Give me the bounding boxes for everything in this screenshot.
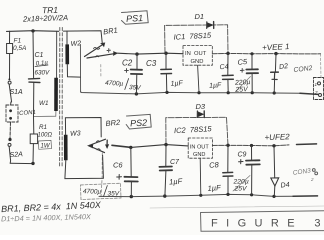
label C7 value 1uF bbox=[169, 177, 183, 187]
label C6 bbox=[113, 161, 123, 170]
svg-text:35V: 35V bbox=[129, 84, 142, 92]
capacitor C9 bbox=[246, 146, 260, 195]
label S2A bbox=[9, 151, 23, 159]
svg-text:25V: 25V bbox=[234, 186, 249, 193]
svg-text:S1A: S1A bbox=[10, 89, 24, 96]
junction node ps2 rail/C6 bbox=[129, 146, 132, 149]
connector CON3 bbox=[292, 167, 317, 182]
capacitor C3 bbox=[161, 53, 172, 92]
wire: PS1 positive rail right segment bbox=[212, 52, 320, 55]
wire: PS1 positive rail left segment bbox=[118, 52, 183, 55]
svg-text:C3: C3 bbox=[146, 59, 157, 68]
junction node ps2 rail/C7 bbox=[164, 143, 167, 146]
label BR2 bbox=[105, 118, 121, 129]
label CON1 bbox=[19, 110, 36, 117]
wire: +VFE2 rail to CON3 bbox=[297, 143, 317, 146]
label 1W boxed bbox=[39, 140, 52, 149]
label C2 value 4700u/35V bbox=[105, 79, 142, 92]
label C1 bbox=[35, 52, 44, 59]
svg-text:630V: 630V bbox=[35, 70, 51, 77]
svg-text:FIGURE 3: FIGURE 3 bbox=[211, 218, 324, 230]
wire: PS2 ground to CON3 bbox=[293, 195, 318, 197]
node +VFE2 label bbox=[264, 132, 290, 142]
junction node gnd/C2 bbox=[135, 92, 138, 95]
svg-text:PS1: PS1 bbox=[126, 13, 144, 24]
wire: R1/C1 junction to W1 bottom bbox=[34, 111, 56, 117]
label C9 value 220u/25V bbox=[233, 176, 251, 193]
svg-text:2: 2 bbox=[314, 90, 318, 95]
junction node gnd/C3 bbox=[165, 91, 168, 94]
svg-text:100Ω: 100Ω bbox=[38, 133, 53, 139]
junction node rail/C5 bbox=[250, 52, 253, 55]
capacitor C5 bbox=[246, 54, 258, 93]
svg-text:1µF: 1µF bbox=[209, 82, 222, 90]
wire: IC1 GND lead bbox=[198, 65, 199, 93]
junction node ps2 rail/D4 bbox=[272, 144, 275, 147]
plus sign C6 bbox=[117, 175, 122, 180]
svg-text:GND: GND bbox=[193, 152, 205, 158]
svg-text:1µF: 1µF bbox=[169, 177, 183, 187]
label IC2 78S15 bbox=[174, 124, 213, 135]
svg-text:D4: D4 bbox=[280, 182, 290, 190]
label 0.5A bbox=[13, 45, 26, 52]
label C7 bbox=[170, 159, 180, 166]
label PS2 boxed bbox=[126, 114, 151, 129]
capacitor C8 bbox=[223, 145, 233, 194]
svg-text:+UFE2: +UFE2 bbox=[264, 132, 290, 142]
svg-text:S2A: S2A bbox=[9, 151, 23, 159]
svg-text:F1: F1 bbox=[14, 38, 22, 45]
wire: PS2 positive rail bbox=[131, 145, 188, 148]
junction node gnd/IC1 bbox=[197, 91, 200, 94]
switch S1A bbox=[8, 78, 12, 102]
svg-text:35V: 35V bbox=[108, 191, 120, 198]
wire: PS2 positive rail right segment bbox=[212, 144, 289, 147]
winding W2 secondary bbox=[63, 31, 102, 77]
svg-text:C5: C5 bbox=[237, 57, 248, 67]
junction node C1 top tap bbox=[31, 29, 34, 32]
label IC1 78S15 bbox=[173, 31, 212, 42]
svg-text:C8: C8 bbox=[209, 160, 220, 170]
svg-text:4700µ: 4700µ bbox=[105, 80, 124, 88]
svg-text:1µF: 1µF bbox=[170, 80, 183, 88]
svg-text:IN OUT: IN OUT bbox=[190, 145, 210, 151]
svg-text:D2: D2 bbox=[279, 63, 289, 71]
label W3 bbox=[70, 130, 81, 138]
svg-text:2: 2 bbox=[310, 177, 314, 182]
svg-text:C1: C1 bbox=[35, 52, 44, 59]
voltage regulator IC2 bbox=[188, 138, 212, 158]
svg-text:0,5A: 0,5A bbox=[13, 45, 26, 52]
svg-text:C4: C4 bbox=[219, 64, 229, 72]
svg-text:C7: C7 bbox=[170, 159, 180, 166]
resistor R1 bbox=[30, 117, 37, 164]
label TR1 rating 2x18-20V/2A bbox=[22, 13, 68, 24]
junction node gnd/C5 bbox=[251, 91, 254, 94]
label D4 bbox=[280, 182, 290, 190]
svg-text:PS2: PS2 bbox=[130, 118, 148, 129]
capacitor C1 bbox=[29, 31, 40, 117]
capacitor C6 bbox=[124, 147, 137, 196]
junction node ps2 rail/C8 bbox=[226, 144, 229, 147]
junction node gnd/D2 bbox=[273, 91, 276, 94]
junction node rail/C4 bbox=[226, 52, 229, 55]
wire: primary top rail bbox=[7, 30, 59, 33]
junction node ps2 gnd/C9 bbox=[250, 193, 253, 196]
svg-text:W3: W3 bbox=[70, 130, 81, 138]
note BR1 BR2 = 4x 1N540X bbox=[1, 200, 102, 214]
label R1 bbox=[39, 124, 47, 131]
wire: rail to fuse F1 bbox=[9, 31, 11, 43]
junction node ps2 gnd/C7 bbox=[163, 194, 166, 197]
label C2 bbox=[122, 59, 133, 68]
diode D4 bbox=[271, 146, 279, 197]
winding W3 secondary bbox=[65, 118, 104, 179]
label C4 value 1uF bbox=[209, 82, 222, 90]
label S1A bbox=[10, 89, 24, 96]
wire: S2A to R1 bottom bbox=[10, 162, 33, 164]
label C3 value 1uF bbox=[170, 80, 183, 88]
label BR1 bbox=[103, 25, 119, 36]
label 100 ohm bbox=[38, 133, 53, 139]
label C8 value 1uF bbox=[207, 183, 221, 193]
junction node ps2 gnd/IC2 bbox=[199, 194, 202, 197]
svg-text:+VEE 1: +VEE 1 bbox=[262, 42, 290, 52]
wire: +VEE1 drop to CON2 pin1 bbox=[320, 54, 323, 78]
transformer core bbox=[60, 28, 63, 168]
junction node rail/D2 bbox=[274, 52, 277, 55]
plus sign C9 bbox=[239, 160, 243, 164]
voltage regulator IC1 bbox=[183, 46, 212, 66]
connector CON2 bbox=[314, 78, 324, 100]
label PS1 boxed bbox=[122, 11, 149, 24]
figure title box FIGURE 3 bbox=[201, 211, 324, 232]
svg-text:BR2: BR2 bbox=[105, 118, 121, 129]
svg-text:2x18÷20V/2A: 2x18÷20V/2A bbox=[22, 13, 68, 24]
junction node ps2 gnd/D4 bbox=[272, 195, 275, 198]
label C4 bbox=[219, 64, 229, 72]
label C5 value 220u/25V bbox=[234, 77, 251, 94]
label D2 bbox=[279, 63, 289, 71]
capacitor C4 bbox=[222, 53, 233, 92]
fuse F1 bbox=[7, 44, 13, 79]
label F1 bbox=[14, 38, 22, 45]
label W2 bbox=[70, 40, 81, 48]
label C8 bbox=[209, 160, 220, 170]
svg-text:IN OUT: IN OUT bbox=[185, 51, 207, 57]
junction node above S2A bbox=[8, 138, 11, 141]
junction node ps2 gnd/C8 bbox=[226, 193, 229, 196]
svg-text:R1: R1 bbox=[39, 124, 47, 131]
wire: BR2 output to PS2 positive rail bbox=[112, 145, 131, 147]
label D1 bbox=[195, 12, 205, 21]
label C3 bbox=[146, 59, 157, 68]
svg-text:C2: C2 bbox=[122, 59, 133, 68]
diode D1 bbox=[165, 22, 228, 54]
plus sign C2 bbox=[125, 69, 129, 73]
label C9 bbox=[238, 152, 247, 159]
svg-text:1µF: 1µF bbox=[207, 183, 221, 193]
svg-text:W2: W2 bbox=[70, 40, 81, 48]
svg-text:GND: GND bbox=[191, 59, 204, 65]
label W1 bbox=[39, 100, 48, 107]
connector CON1 bbox=[6, 102, 18, 122]
label D3 bbox=[196, 102, 206, 111]
junction node rail/C3 bbox=[164, 52, 167, 55]
bridge rectifier BR2 bbox=[88, 139, 109, 196]
svg-text:4700µ: 4700µ bbox=[83, 188, 102, 196]
junction node ps2 gnd/C6 bbox=[130, 195, 133, 198]
svg-text:W1: W1 bbox=[39, 100, 48, 107]
note D1-D4 = 1N400X 1N540X bbox=[1, 212, 92, 223]
svg-text:C6: C6 bbox=[113, 161, 123, 170]
label C1 value 630V bbox=[35, 70, 51, 77]
wire: IC2 GND lead bbox=[199, 158, 202, 195]
junction node rail/C2 bbox=[135, 52, 138, 55]
label CON2 bbox=[293, 65, 313, 74]
junction node gnd/C4 bbox=[227, 91, 230, 94]
wire: ground rail to CON2 pin2 bbox=[300, 93, 318, 94]
svg-text:C9: C9 bbox=[238, 152, 247, 159]
wire: PS2 ground rail bbox=[99, 194, 293, 196]
junction node ps2 rail/C9 bbox=[250, 144, 253, 147]
label C1 value 0.1u bbox=[35, 59, 49, 67]
bridge rectifier BR1 bbox=[80, 43, 117, 91]
label TR1 bbox=[42, 5, 59, 16]
diode D2 bbox=[271, 54, 279, 93]
wire: CON1 to S2A bbox=[9, 122, 12, 139]
label C6 value 4700u/35V boxed bbox=[81, 183, 122, 199]
capacitor C2 bbox=[131, 54, 143, 94]
svg-text:D1: D1 bbox=[195, 12, 205, 21]
plus sign C5 bbox=[240, 68, 244, 72]
svg-text:25V: 25V bbox=[234, 86, 249, 94]
junction node R1 bottom bbox=[31, 162, 34, 165]
node +VEE1 label bbox=[262, 42, 290, 52]
svg-text:D3: D3 bbox=[196, 102, 206, 111]
wire: PS1 ground rail bbox=[81, 91, 300, 94]
diode D3 bbox=[166, 111, 228, 145]
label C5 bbox=[237, 57, 248, 67]
page fold line bbox=[150, 206, 324, 208]
switch S2A bbox=[8, 143, 11, 163]
winding W1 primary bbox=[55, 31, 58, 111]
capacitor C7 bbox=[159, 145, 172, 197]
